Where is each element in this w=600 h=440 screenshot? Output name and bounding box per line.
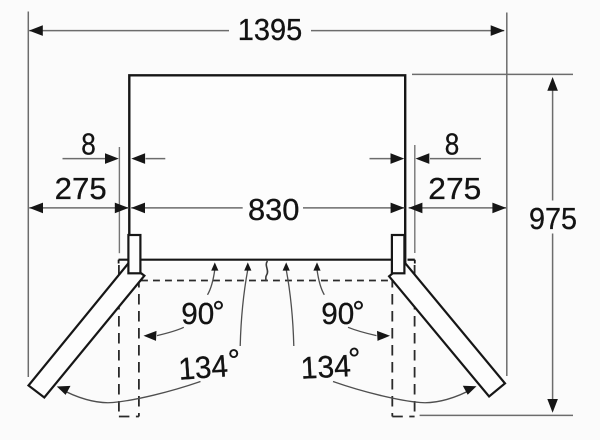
right door closed rect	[392, 235, 405, 273]
dimension 8 right	[370, 158, 391, 160]
svg-text:275: 275	[428, 171, 481, 206]
swing arc left 134deg upper	[240, 270, 248, 347]
swing arc right 134deg upper	[286, 270, 294, 347]
extension line for 8 right	[414, 145, 416, 253]
arrowhead 975 down	[547, 399, 558, 413]
dimension 275 left	[29, 207, 128, 209]
swing arc right 90deg lower with arrow	[348, 327, 377, 335]
wire: 975 top reference line	[412, 73, 573, 75]
svg-text:1395: 1395	[238, 12, 303, 47]
swing arc right 90deg upper	[317, 270, 324, 295]
dashed door position (90 deg) right	[392, 265, 414, 417]
arrowhead 1395 right	[491, 25, 505, 36]
svg-text:8: 8	[445, 127, 460, 162]
svg-text:90: 90	[181, 296, 214, 331]
center door gap squiggle	[266, 261, 268, 281]
dimension 275 right	[409, 207, 507, 209]
wire: right extension line (1395)	[506, 13, 508, 377]
closed-position arrowhead left 90	[211, 262, 218, 270]
left door panel open 134deg	[29, 264, 145, 398]
swing arc left 90deg upper	[208, 270, 215, 295]
wire: 975 bottom reference line	[420, 414, 573, 416]
svg-text:975: 975	[529, 201, 577, 236]
svg-text:134: 134	[300, 348, 352, 386]
svg-text:°: °	[347, 341, 361, 377]
svg-text:8: 8	[81, 126, 96, 161]
closed-position arrowhead left 134	[244, 262, 251, 270]
front corner stub left	[118, 260, 120, 264]
svg-text:90: 90	[321, 296, 354, 331]
dimension 975 line	[552, 79, 554, 201]
front corner stub right	[414, 260, 416, 264]
closed-position arrowhead right 90	[313, 262, 320, 270]
right door panel open 134deg	[389, 263, 505, 396]
svg-text:275: 275	[55, 171, 107, 206]
closed-position arrowhead right 134	[283, 262, 290, 270]
svg-text:830: 830	[248, 192, 300, 227]
svg-text:°: °	[212, 295, 224, 330]
swing arc right 134deg lower with arrow	[333, 382, 473, 403]
arrowhead 975 up	[547, 77, 558, 91]
dimension 8 left	[63, 158, 106, 160]
dashed door position (90 deg) left	[119, 265, 139, 417]
dashed inner front line	[141, 280, 391, 282]
svg-text:°: °	[227, 342, 242, 378]
angle label 134 right	[299, 341, 361, 386]
cabinet front face right segment	[408, 259, 415, 261]
swing arc left 90deg lower with arrow	[157, 327, 184, 335]
dimension 830	[131, 207, 243, 209]
wire: left extension line (1395)	[27, 12, 29, 378]
swing arc left 134deg lower with arrow	[60, 382, 201, 403]
arrowhead 1395 left	[29, 25, 43, 36]
svg-text:°: °	[352, 295, 364, 330]
cabinet front face line	[119, 259, 392, 261]
cabinet body rectangle	[129, 75, 405, 263]
extension line for 8 left	[118, 147, 120, 253]
dimension 1395 line	[29, 30, 229, 32]
angle label 134 left	[177, 342, 242, 386]
svg-text:134: 134	[177, 348, 229, 386]
left door closed rect	[128, 235, 140, 273]
